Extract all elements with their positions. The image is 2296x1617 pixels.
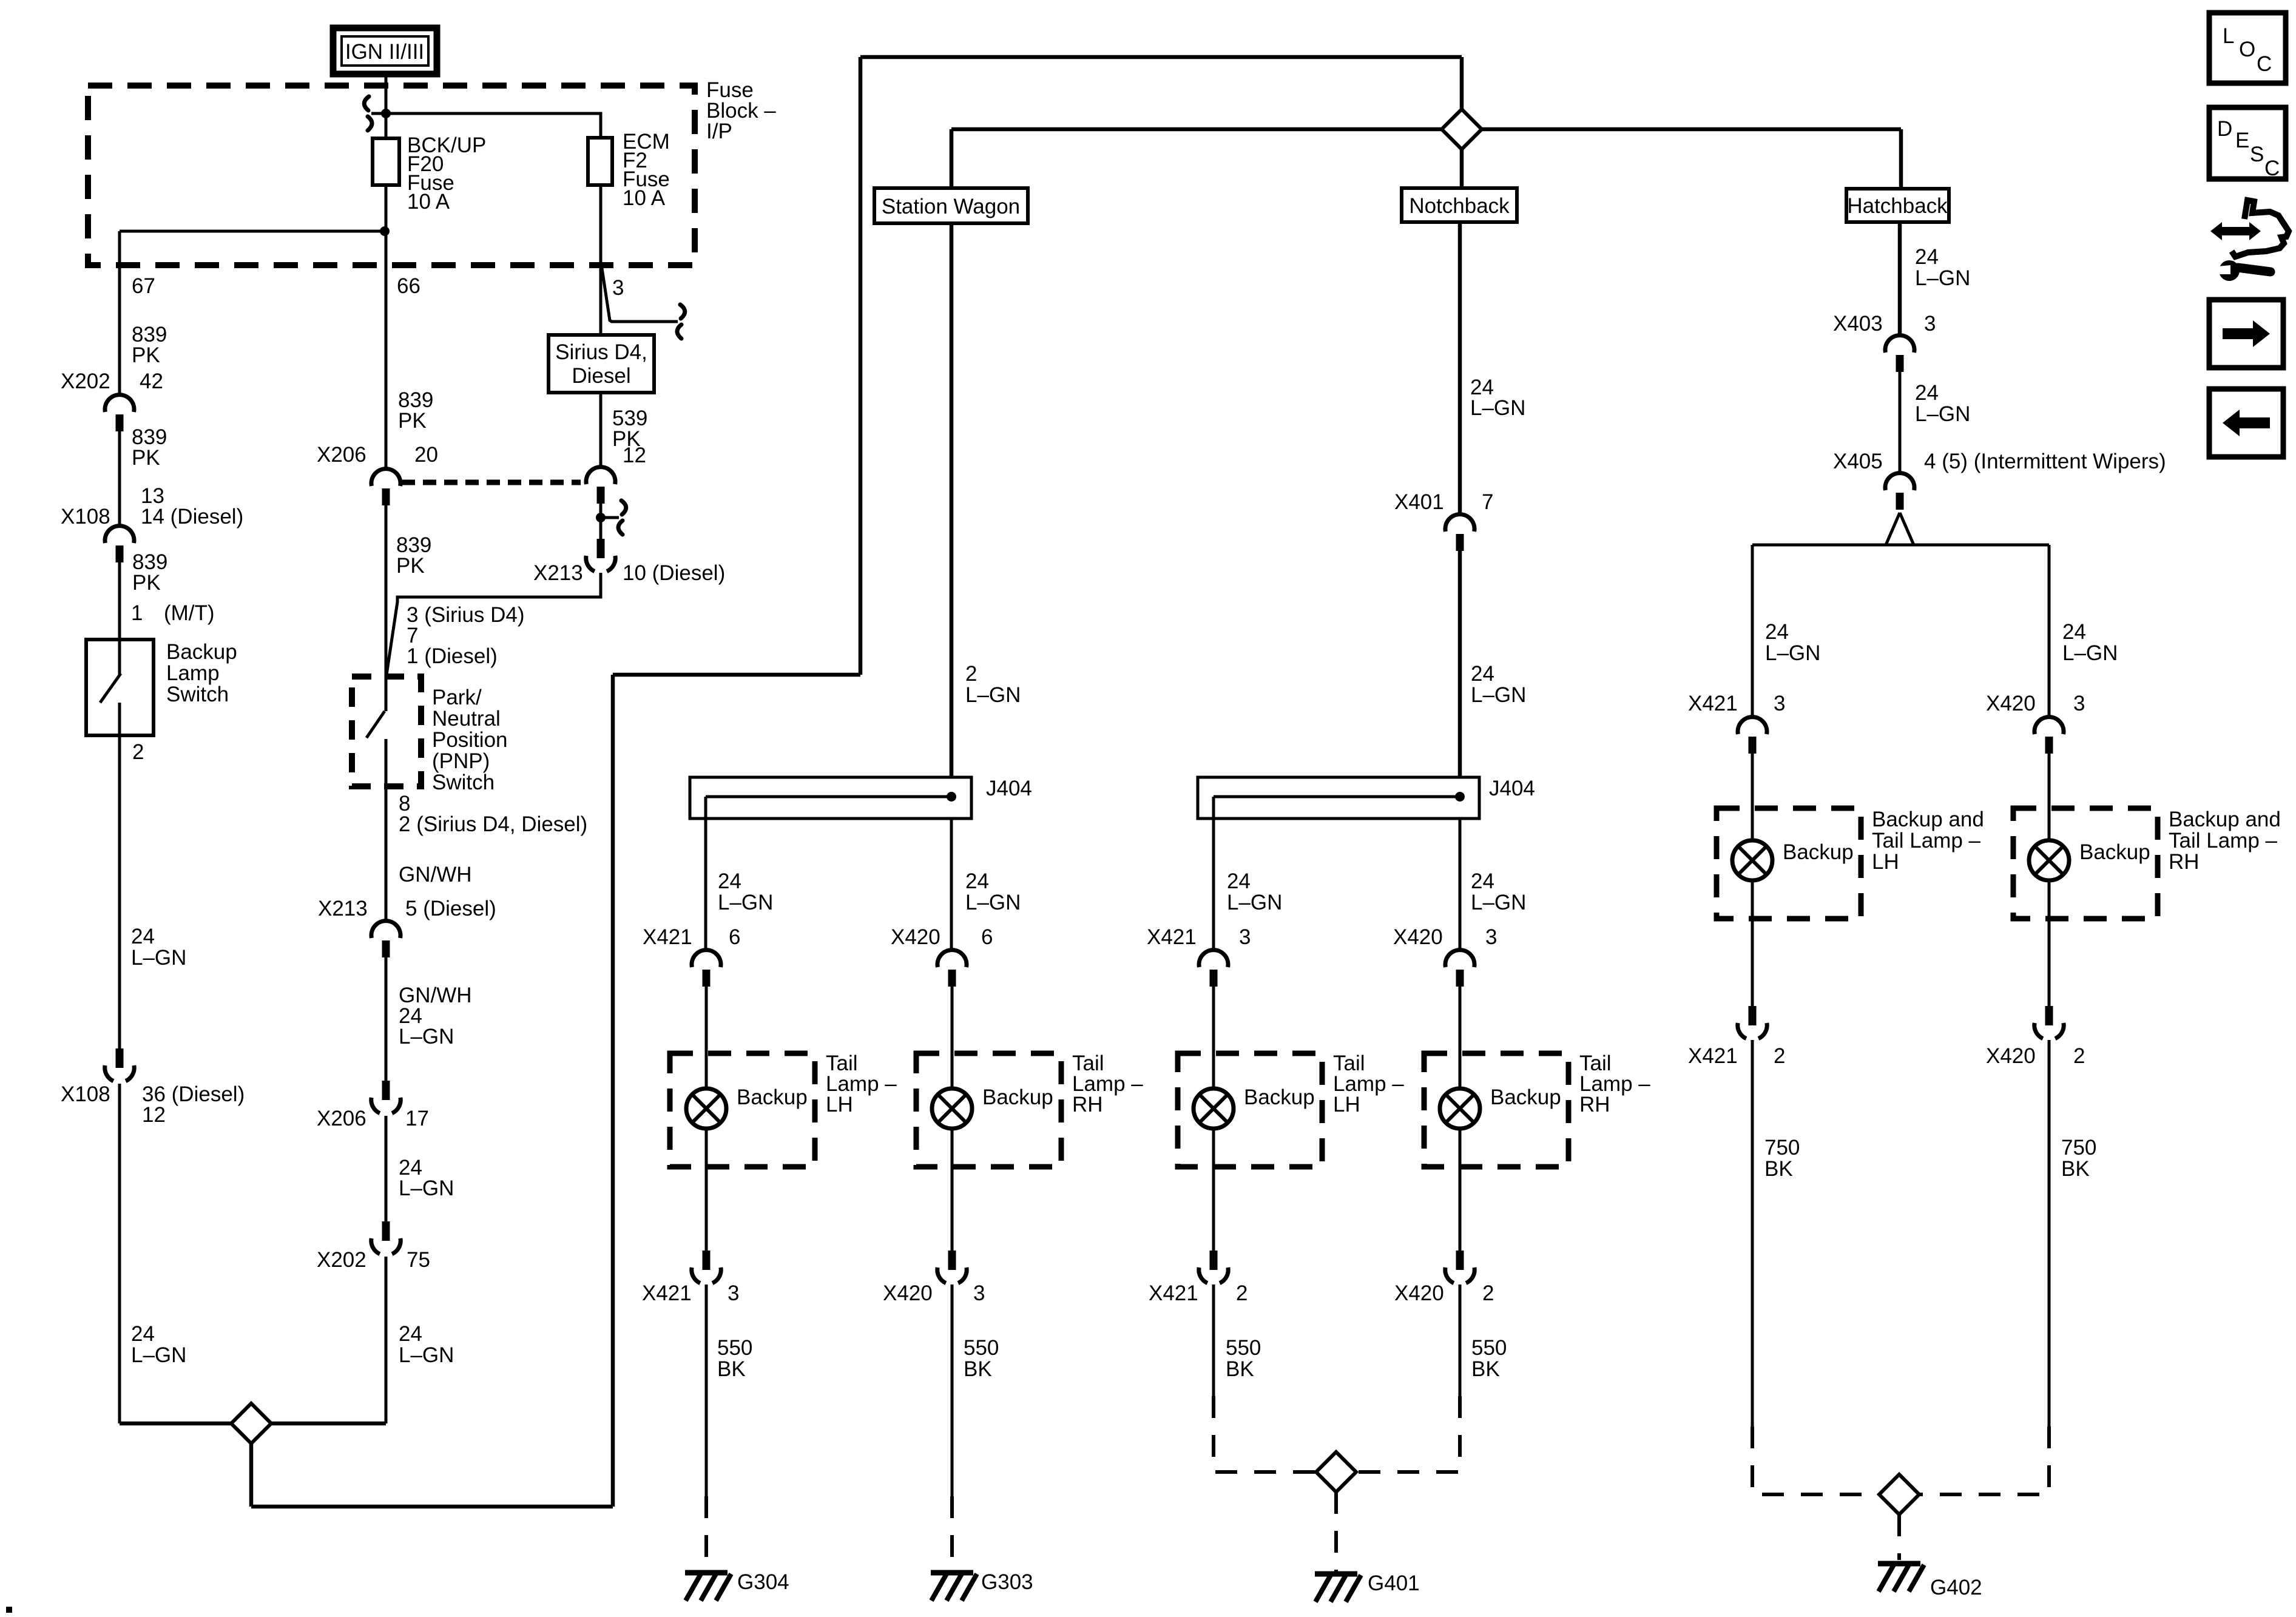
- label X420 pin 3 (notch): [1393, 925, 1497, 949]
- squiggle: circuit continues (diesel): [618, 501, 626, 535]
- label G402: [1930, 1576, 1982, 1599]
- svg-text:O: O: [2239, 38, 2255, 61]
- connector X421 pin 6: [692, 950, 721, 987]
- wire: X108-36 down to splice: [118, 1084, 121, 1423]
- svg-text:X421: X421: [643, 925, 692, 949]
- connector X421 pin 3 (notch): [1199, 950, 1228, 987]
- label Station Wagon: [882, 195, 1020, 218]
- svg-text:75: 75: [407, 1248, 430, 1272]
- svg-text:BK: BK: [2061, 1157, 2090, 1181]
- svg-text:Tail Lamp –: Tail Lamp –: [1872, 829, 1981, 852]
- svg-text:L–GN: L–GN: [1915, 402, 1970, 426]
- svg-text:X421: X421: [1688, 692, 1738, 715]
- svg-text:RH: RH: [1579, 1093, 1610, 1116]
- svg-text:GN/WH: GN/WH: [399, 863, 472, 886]
- connector X405 pin 4: [1885, 473, 1914, 510]
- svg-text:24: 24: [131, 925, 155, 948]
- label ckt 24 L-GN (left): [131, 925, 186, 970]
- connector X420 pin 6: [937, 950, 967, 987]
- wire: vertical return up: [611, 675, 615, 1507]
- wire: hatch LH lamp down: [1751, 880, 1754, 1006]
- svg-text:1 (Diesel): 1 (Diesel): [407, 644, 498, 668]
- connector X108 pin 13/14: [105, 526, 134, 562]
- svg-text:66: 66: [397, 274, 420, 298]
- svg-text:24: 24: [399, 1322, 422, 1346]
- svg-text:6: 6: [981, 925, 993, 949]
- label Backup and Tail Lamp - LH: [1872, 808, 1984, 874]
- svg-text:Backup: Backup: [2079, 840, 2150, 864]
- label X421 pin 3 (wagon lower): [642, 1281, 739, 1305]
- svg-text:Switch: Switch: [166, 683, 229, 706]
- wire: J404 to wagon LH lamp: [704, 797, 707, 950]
- J404 internal bus (notchback): [1214, 795, 1460, 798]
- svg-text:X420: X420: [1986, 1044, 2036, 1068]
- wire: X420-6 to tail lamp RH: [951, 987, 954, 1089]
- label Park/Neutral Position (PNP) Switch: [432, 686, 508, 794]
- svg-text:550: 550: [1226, 1336, 1261, 1360]
- dashed wire hatch RH to splice: [1919, 1426, 2049, 1494]
- label Fuse Block I/P: [706, 78, 776, 143]
- splice pack J404 box (wagon): [690, 777, 971, 819]
- svg-text:L–GN: L–GN: [965, 891, 1021, 914]
- svg-text:D: D: [2217, 117, 2232, 141]
- backup lamp bulb (hatch RH): [2029, 840, 2069, 880]
- icon box arrow right: [2209, 300, 2283, 368]
- label X403 pin 3: [1833, 312, 1936, 336]
- wire: distribution down to Station Wagon label: [950, 129, 954, 188]
- svg-text:Backup: Backup: [737, 1085, 808, 1109]
- label X202 pin 75: [317, 1248, 430, 1272]
- label X421 pin 3 (notch): [1147, 925, 1251, 949]
- svg-text:24: 24: [1471, 662, 1494, 686]
- dashed wire notch RH to splice: [1356, 1396, 1460, 1472]
- svg-text:7: 7: [1482, 490, 1493, 514]
- svg-text:L–GN: L–GN: [399, 1176, 454, 1200]
- svg-text:C: C: [2257, 52, 2272, 76]
- icon box DESC: [2209, 107, 2286, 180]
- label ckt 24 L-GN (lower): [399, 1322, 454, 1367]
- svg-text:G402: G402: [1930, 1576, 1982, 1599]
- wire: wagon LH lamp down: [705, 1129, 708, 1251]
- label X420 pin 6: [891, 925, 993, 949]
- svg-text:Neutral: Neutral: [432, 707, 501, 731]
- svg-text:LH: LH: [826, 1093, 853, 1116]
- wire: X401-7 down to J404: [1458, 551, 1462, 777]
- backup lamp switch box: [86, 640, 154, 735]
- svg-text:(PNP): (PNP): [432, 749, 490, 773]
- connector X202 pin 75: [371, 1221, 400, 1254]
- label ckt 550 BK (wagon RH): [964, 1336, 999, 1381]
- svg-text:L–GN: L–GN: [1915, 266, 1970, 290]
- svg-text:24: 24: [1471, 869, 1494, 893]
- svg-text:17: 17: [405, 1107, 429, 1130]
- svg-text:20: 20: [414, 443, 438, 467]
- svg-text:L–GN: L–GN: [965, 683, 1021, 707]
- label ckt GN/WH 24 L-GN: [399, 984, 472, 1048]
- wire: fuse F20 output down (ckt 839): [385, 185, 388, 469]
- svg-text:PK: PK: [132, 343, 160, 367]
- svg-text:3: 3: [1485, 925, 1497, 949]
- svg-text:G303: G303: [981, 1570, 1033, 1594]
- label ckt 24 L-GN (wagon RH): [965, 869, 1021, 914]
- squiggle: branch continues right: [677, 305, 685, 339]
- wire: stub to squiggle: [604, 516, 619, 519]
- label PNP pins 3 (Sirius D4) / 7 / 1 (Diesel): [407, 603, 524, 668]
- svg-text:3: 3: [728, 1281, 739, 1305]
- wire: fuse F2 output down (ckt 539): [599, 185, 603, 335]
- label Backup (notch LH): [1244, 1085, 1315, 1109]
- wire: IGN II/III down to fuse F20: [385, 74, 388, 138]
- icon double arrow with wrench: [2210, 200, 2289, 281]
- label ckt 24 L-GN (hatch top): [1915, 245, 1970, 290]
- svg-text:Position: Position: [432, 728, 508, 752]
- svg-text:X421: X421: [1688, 1044, 1738, 1068]
- label pin 12: [623, 444, 646, 467]
- wire: splice down to Notchback label: [1460, 149, 1464, 188]
- svg-text:X403: X403: [1833, 312, 1883, 336]
- svg-text:2: 2: [1482, 1281, 1494, 1305]
- dashed wire to G402: [1897, 1514, 1901, 1560]
- svg-text:Switch: Switch: [432, 771, 495, 794]
- wire: X403-3 down to X405: [1899, 372, 1902, 473]
- label Notchback: [1409, 194, 1510, 218]
- connector X421 pin 3 (hatch): [1738, 717, 1767, 754]
- connector X401 pin 7: [1445, 515, 1474, 551]
- svg-text:10 A: 10 A: [623, 186, 666, 210]
- svg-text:L–GN: L–GN: [1765, 641, 1820, 665]
- svg-text:X108: X108: [61, 1082, 110, 1106]
- wire: notch RH lamp down: [1459, 1129, 1462, 1251]
- ground G401: [1315, 1574, 1361, 1602]
- connector X420 pin 2 (notch lower): [1445, 1251, 1474, 1283]
- svg-text:X202: X202: [317, 1248, 366, 1272]
- svg-text:12: 12: [142, 1103, 166, 1127]
- svg-text:PK: PK: [396, 554, 425, 578]
- label X420 pin 2 (hatch lower): [1986, 1044, 2085, 1068]
- wire: notch RH ground wire: [1459, 1284, 1462, 1396]
- splice pack J404 box (notchback): [1198, 777, 1479, 819]
- junction dot at fuse feed: [381, 109, 391, 118]
- wire: wagon RH ground wire (ckt 550): [951, 1284, 954, 1496]
- splice diamond (top distribution): [1442, 109, 1482, 149]
- svg-text:2: 2: [2073, 1044, 2085, 1068]
- svg-text:S: S: [2250, 143, 2264, 166]
- label ckt 2 L-GN: [965, 662, 1021, 707]
- wire: Station Wagon down to J404: [950, 223, 954, 777]
- svg-text:X213: X213: [533, 561, 583, 585]
- svg-text:L–GN: L–GN: [399, 1025, 454, 1048]
- svg-text:24: 24: [1915, 381, 1939, 405]
- tail lamp RH dashed box (wagon): [916, 1053, 1061, 1167]
- wire: wagon RH lamp down: [951, 1129, 954, 1251]
- svg-text:2: 2: [1774, 1044, 1785, 1068]
- svg-text:3: 3: [973, 1281, 985, 1305]
- svg-text:Backup: Backup: [1490, 1085, 1561, 1109]
- tail lamp RH dashed box (notch): [1424, 1053, 1568, 1167]
- label Backup and Tail Lamp - RH: [2169, 808, 2281, 874]
- connector X420 pin 3 (hatch): [2034, 717, 2064, 754]
- label X405 pin 4 (5): [1833, 450, 2166, 473]
- label X108 pin 13 / 14 (Diesel): [61, 484, 243, 528]
- connector X202 pin 42: [105, 395, 134, 431]
- svg-text:2: 2: [132, 740, 144, 764]
- svg-text:Backup: Backup: [1244, 1085, 1315, 1109]
- wire: X420-3 to hatch RH lamp: [2048, 754, 2051, 840]
- label ckt 550 BK (notch RH): [1471, 1336, 1507, 1381]
- label X401 pin 7: [1394, 490, 1493, 514]
- svg-text:IGN II/III: IGN II/III: [345, 40, 424, 64]
- icon box arrow left: [2209, 389, 2283, 457]
- svg-text:750: 750: [2061, 1136, 2096, 1160]
- label ckt 24 L-GN (hatch LH): [1765, 620, 1820, 665]
- wire: Hatchback down to X403: [1898, 222, 1902, 336]
- label J404 (notchback): [1489, 777, 1535, 800]
- wire: Sirius box down to connector 12: [599, 393, 603, 467]
- wire: X213-10 down and left to PNP: [387, 573, 601, 675]
- label Backup (wagon LH): [737, 1085, 808, 1109]
- switch blade (backup lamp switch): [100, 673, 121, 703]
- label ckt 24 L-GN (notchback upper): [1470, 376, 1525, 420]
- svg-text:4 (5) (Intermittent Wipers): 4 (5) (Intermittent Wipers): [1924, 450, 2166, 473]
- svg-text:I/P: I/P: [706, 120, 732, 143]
- backup lamp bulb (wagon LH): [686, 1089, 726, 1129]
- label X421 pin 3 (hatch): [1688, 692, 1785, 715]
- wire: hatch LH ground wire (ckt 750): [1751, 1040, 1754, 1426]
- label X206 pin 20: [317, 443, 438, 467]
- svg-text:24: 24: [965, 869, 989, 893]
- svg-text:L: L: [2223, 24, 2234, 48]
- svg-text:X213: X213: [318, 897, 368, 920]
- svg-text:BK: BK: [1471, 1357, 1500, 1381]
- svg-text:24: 24: [1915, 245, 1939, 269]
- Hatchback label box: [1846, 189, 1949, 222]
- svg-text:X421: X421: [1147, 925, 1197, 949]
- label ckt 839 PK (upper left): [132, 323, 167, 367]
- label ckt 24 L-GN (wagon LH): [718, 869, 773, 914]
- wire: Notchback down to X401: [1458, 222, 1462, 515]
- svg-text:J404: J404: [986, 777, 1032, 800]
- wire: vertical up to top rail: [859, 57, 863, 675]
- svg-text:750: 750: [1764, 1136, 1800, 1160]
- svg-text:L–GN: L–GN: [1227, 891, 1282, 914]
- wire: pin 3 diagonal branch: [602, 268, 678, 322]
- svg-text:C: C: [2264, 157, 2280, 180]
- splice diamond (left): [231, 1403, 271, 1443]
- svg-text:2 (Sirius D4, Diesel): 2 (Sirius D4, Diesel): [399, 812, 587, 836]
- connector pin 12 (X206): [586, 467, 615, 504]
- label ckt 550 BK (notch LH): [1226, 1336, 1261, 1381]
- svg-text:6: 6: [729, 925, 740, 949]
- label fuse F20: [407, 133, 486, 214]
- label Tail Lamp - LH (wagon): [826, 1052, 897, 1116]
- svg-text:BK: BK: [717, 1357, 746, 1381]
- fuse F20 (BCK/UP 10A): [373, 138, 399, 185]
- svg-text:2: 2: [1236, 1281, 1248, 1305]
- dashed wire to G401: [1334, 1492, 1338, 1571]
- svg-text:24: 24: [1227, 869, 1251, 893]
- wire: horizontal jog right: [613, 673, 860, 677]
- label ckt GN/WH (above X213): [399, 863, 472, 886]
- connector X421 pin 3 (wagon, lower): [692, 1251, 721, 1283]
- splice diamond (hatch grounds): [1879, 1474, 1919, 1514]
- label pin 67: [132, 274, 155, 298]
- label ckt 550 BK (wagon LH): [717, 1336, 752, 1381]
- svg-text:X421: X421: [642, 1281, 692, 1305]
- label X420 pin 2 (notch lower): [1394, 1281, 1494, 1305]
- svg-text:BK: BK: [1226, 1357, 1254, 1381]
- svg-text:LH: LH: [1333, 1093, 1360, 1116]
- park/neutral position switch dashed box: [352, 677, 421, 786]
- connector X420 pin 3 (notch): [1445, 950, 1474, 987]
- svg-text:PK: PK: [398, 409, 427, 433]
- svg-text:Backup and: Backup and: [2169, 808, 2281, 831]
- connector X213 pin 10: [586, 539, 615, 572]
- label X213 pin 5 (Diesel): [318, 897, 496, 920]
- label Hatchback: [1847, 194, 1948, 218]
- connector X213 pin 5: [371, 921, 400, 957]
- svg-text:X108: X108: [61, 505, 110, 528]
- svg-text:3: 3: [1774, 692, 1785, 715]
- J404 internal bus (wagon): [706, 795, 951, 798]
- svg-text:Park/: Park/: [432, 686, 482, 709]
- fuse F2 (ECM 10A): [588, 138, 612, 185]
- power feed label IGN II/III: [333, 28, 437, 74]
- label X206 pin 17: [317, 1107, 429, 1130]
- junction dot J404 (wagon): [947, 792, 956, 802]
- svg-text:X421: X421: [1149, 1281, 1198, 1305]
- svg-text:24: 24: [2062, 620, 2086, 644]
- wire: hatch lamp bus: [1752, 544, 2049, 547]
- svg-text:10 (Diesel): 10 (Diesel): [623, 561, 725, 585]
- label X420 pin 3 (wagon lower): [883, 1281, 985, 1305]
- backup and tail lamp RH dashed box (hatch): [2013, 808, 2158, 919]
- squiggle: circuit continues (left of junction): [364, 96, 382, 130]
- label X421 pin 2 (notch lower): [1149, 1281, 1248, 1305]
- svg-text:L–GN: L–GN: [399, 1343, 454, 1367]
- svg-text:3 (Sirius D4): 3 (Sirius D4): [407, 603, 524, 627]
- svg-text:Backup: Backup: [166, 640, 237, 664]
- label Backup Lamp Switch: [166, 640, 237, 706]
- svg-text:BK: BK: [964, 1357, 992, 1381]
- svg-text:3: 3: [612, 276, 624, 300]
- label X202 pin 42: [61, 370, 163, 393]
- label ckt 750 BK (hatch RH): [2061, 1136, 2096, 1181]
- label J404 (wagon): [986, 777, 1032, 800]
- label pin 1 (M/T): [131, 601, 215, 625]
- Notchback label box: [1402, 188, 1517, 222]
- label ckt 539 PK: [612, 407, 647, 451]
- dashed wire to G303: [950, 1496, 954, 1569]
- svg-text:X420: X420: [1393, 925, 1443, 949]
- svg-text:X420: X420: [1986, 692, 2036, 715]
- svg-text:1: 1: [131, 601, 143, 625]
- ground G304: [685, 1573, 731, 1601]
- svg-text:X405: X405: [1833, 450, 1883, 473]
- wire: pin 67 down to X202: [118, 231, 121, 395]
- label ckt 750 BK (hatch LH): [1764, 1136, 1800, 1181]
- connector X420 pin 3 (wagon, lower): [937, 1251, 967, 1283]
- svg-text:X206: X206: [317, 443, 366, 467]
- label ckt 839 PK (left mid): [132, 425, 167, 470]
- page mark (bottom left dot): [6, 1607, 12, 1613]
- label G401: [1368, 1571, 1420, 1595]
- backup and tail lamp LH dashed box (hatch): [1717, 808, 1861, 919]
- svg-text:67: 67: [132, 274, 155, 298]
- wire: X421-6 to tail lamp LH: [705, 987, 708, 1089]
- svg-text:550: 550: [964, 1336, 999, 1360]
- wire: PNP pin 8 down to X213-5: [385, 739, 388, 921]
- label pin 66: [397, 274, 420, 298]
- svg-text:RH: RH: [1072, 1093, 1103, 1116]
- wire: X202-75 down to splice: [385, 1257, 388, 1423]
- svg-text:L–GN: L–GN: [1471, 683, 1526, 707]
- svg-text:RH: RH: [2169, 850, 2200, 874]
- wire: bus down to hatch RH: [2048, 545, 2051, 717]
- wire: hatch RH ground wire (ckt 750): [2048, 1040, 2051, 1426]
- connector X206 pin 17: [371, 1081, 400, 1113]
- connector X108 pin 36/12: [105, 1048, 134, 1081]
- label ckt 24 L-GN (mid): [399, 1156, 454, 1200]
- svg-text:L–GN: L–GN: [131, 946, 186, 970]
- wire: splice diamond down: [249, 1443, 254, 1507]
- fuse block I/P dashed box: [88, 86, 695, 265]
- svg-text:PK: PK: [132, 446, 160, 470]
- wire: X421-3 to hatch LH lamp: [1751, 754, 1754, 840]
- connector X403 pin 3: [1885, 336, 1914, 372]
- label X421 pin 6: [643, 925, 740, 949]
- svg-text:L–GN: L–GN: [1471, 891, 1526, 914]
- label Tail Lamp - LH (notch): [1333, 1052, 1404, 1116]
- svg-text:Station Wagon: Station Wagon: [882, 195, 1020, 218]
- wire: switch pin 2 down to X108-36: [118, 703, 121, 1048]
- svg-text:Backup and: Backup and: [1872, 808, 1984, 831]
- label ckt 839 PK (above PNP): [396, 533, 431, 578]
- wire: splice diamond to X202-75 branch: [271, 1422, 386, 1426]
- svg-text:Sirius D4,: Sirius D4,: [555, 340, 647, 364]
- wire: distribution down to Hatchback label: [1899, 129, 1903, 189]
- svg-text:Backup: Backup: [1783, 840, 1854, 864]
- label Sirius D4, Diesel: [555, 340, 647, 388]
- label ckt 24 L-GN (lower left): [131, 1322, 186, 1367]
- wire: drop to distribution splice: [1460, 57, 1464, 110]
- svg-text:L–GN: L–GN: [2062, 641, 2118, 665]
- svg-text:5 (Diesel): 5 (Diesel): [405, 897, 496, 920]
- svg-text:L–GN: L–GN: [131, 1343, 186, 1367]
- svg-text:BK: BK: [1764, 1157, 1793, 1181]
- svg-text:X206: X206: [317, 1107, 366, 1130]
- svg-text:J404: J404: [1489, 777, 1535, 800]
- wire: bottom run to the right: [251, 1505, 613, 1509]
- label PNP pins 8 / 2 (Sirius D4, Diesel): [399, 792, 587, 836]
- wire: bottom horizontal to splice diamond: [120, 1422, 231, 1426]
- label pin 2: [132, 740, 144, 764]
- label X213 pin 10 (Diesel): [533, 561, 725, 585]
- wire: X206-17 down to X202-75: [385, 1116, 388, 1221]
- svg-text:3: 3: [1924, 312, 1936, 336]
- svg-text:24: 24: [131, 1322, 155, 1346]
- label ckt 24 L-GN (hatch mid): [1915, 381, 1970, 426]
- label ckt 839 PK (below 66): [398, 388, 433, 433]
- svg-text:10 A: 10 A: [407, 190, 450, 214]
- label ckt 24 L-GN (hatch RH): [2062, 620, 2118, 665]
- junction dot at pin 67 branch: [380, 226, 390, 236]
- Sirius D4 Diesel box: [549, 335, 654, 393]
- junction dot (diesel branch): [596, 513, 606, 522]
- tail lamp LH dashed box (notch): [1178, 1053, 1322, 1167]
- inline connector dotted line X206: [402, 480, 581, 485]
- dashed wire hatch LH to splice: [1752, 1426, 1879, 1494]
- wire: X405 V-split to lamp bus: [1886, 513, 1914, 545]
